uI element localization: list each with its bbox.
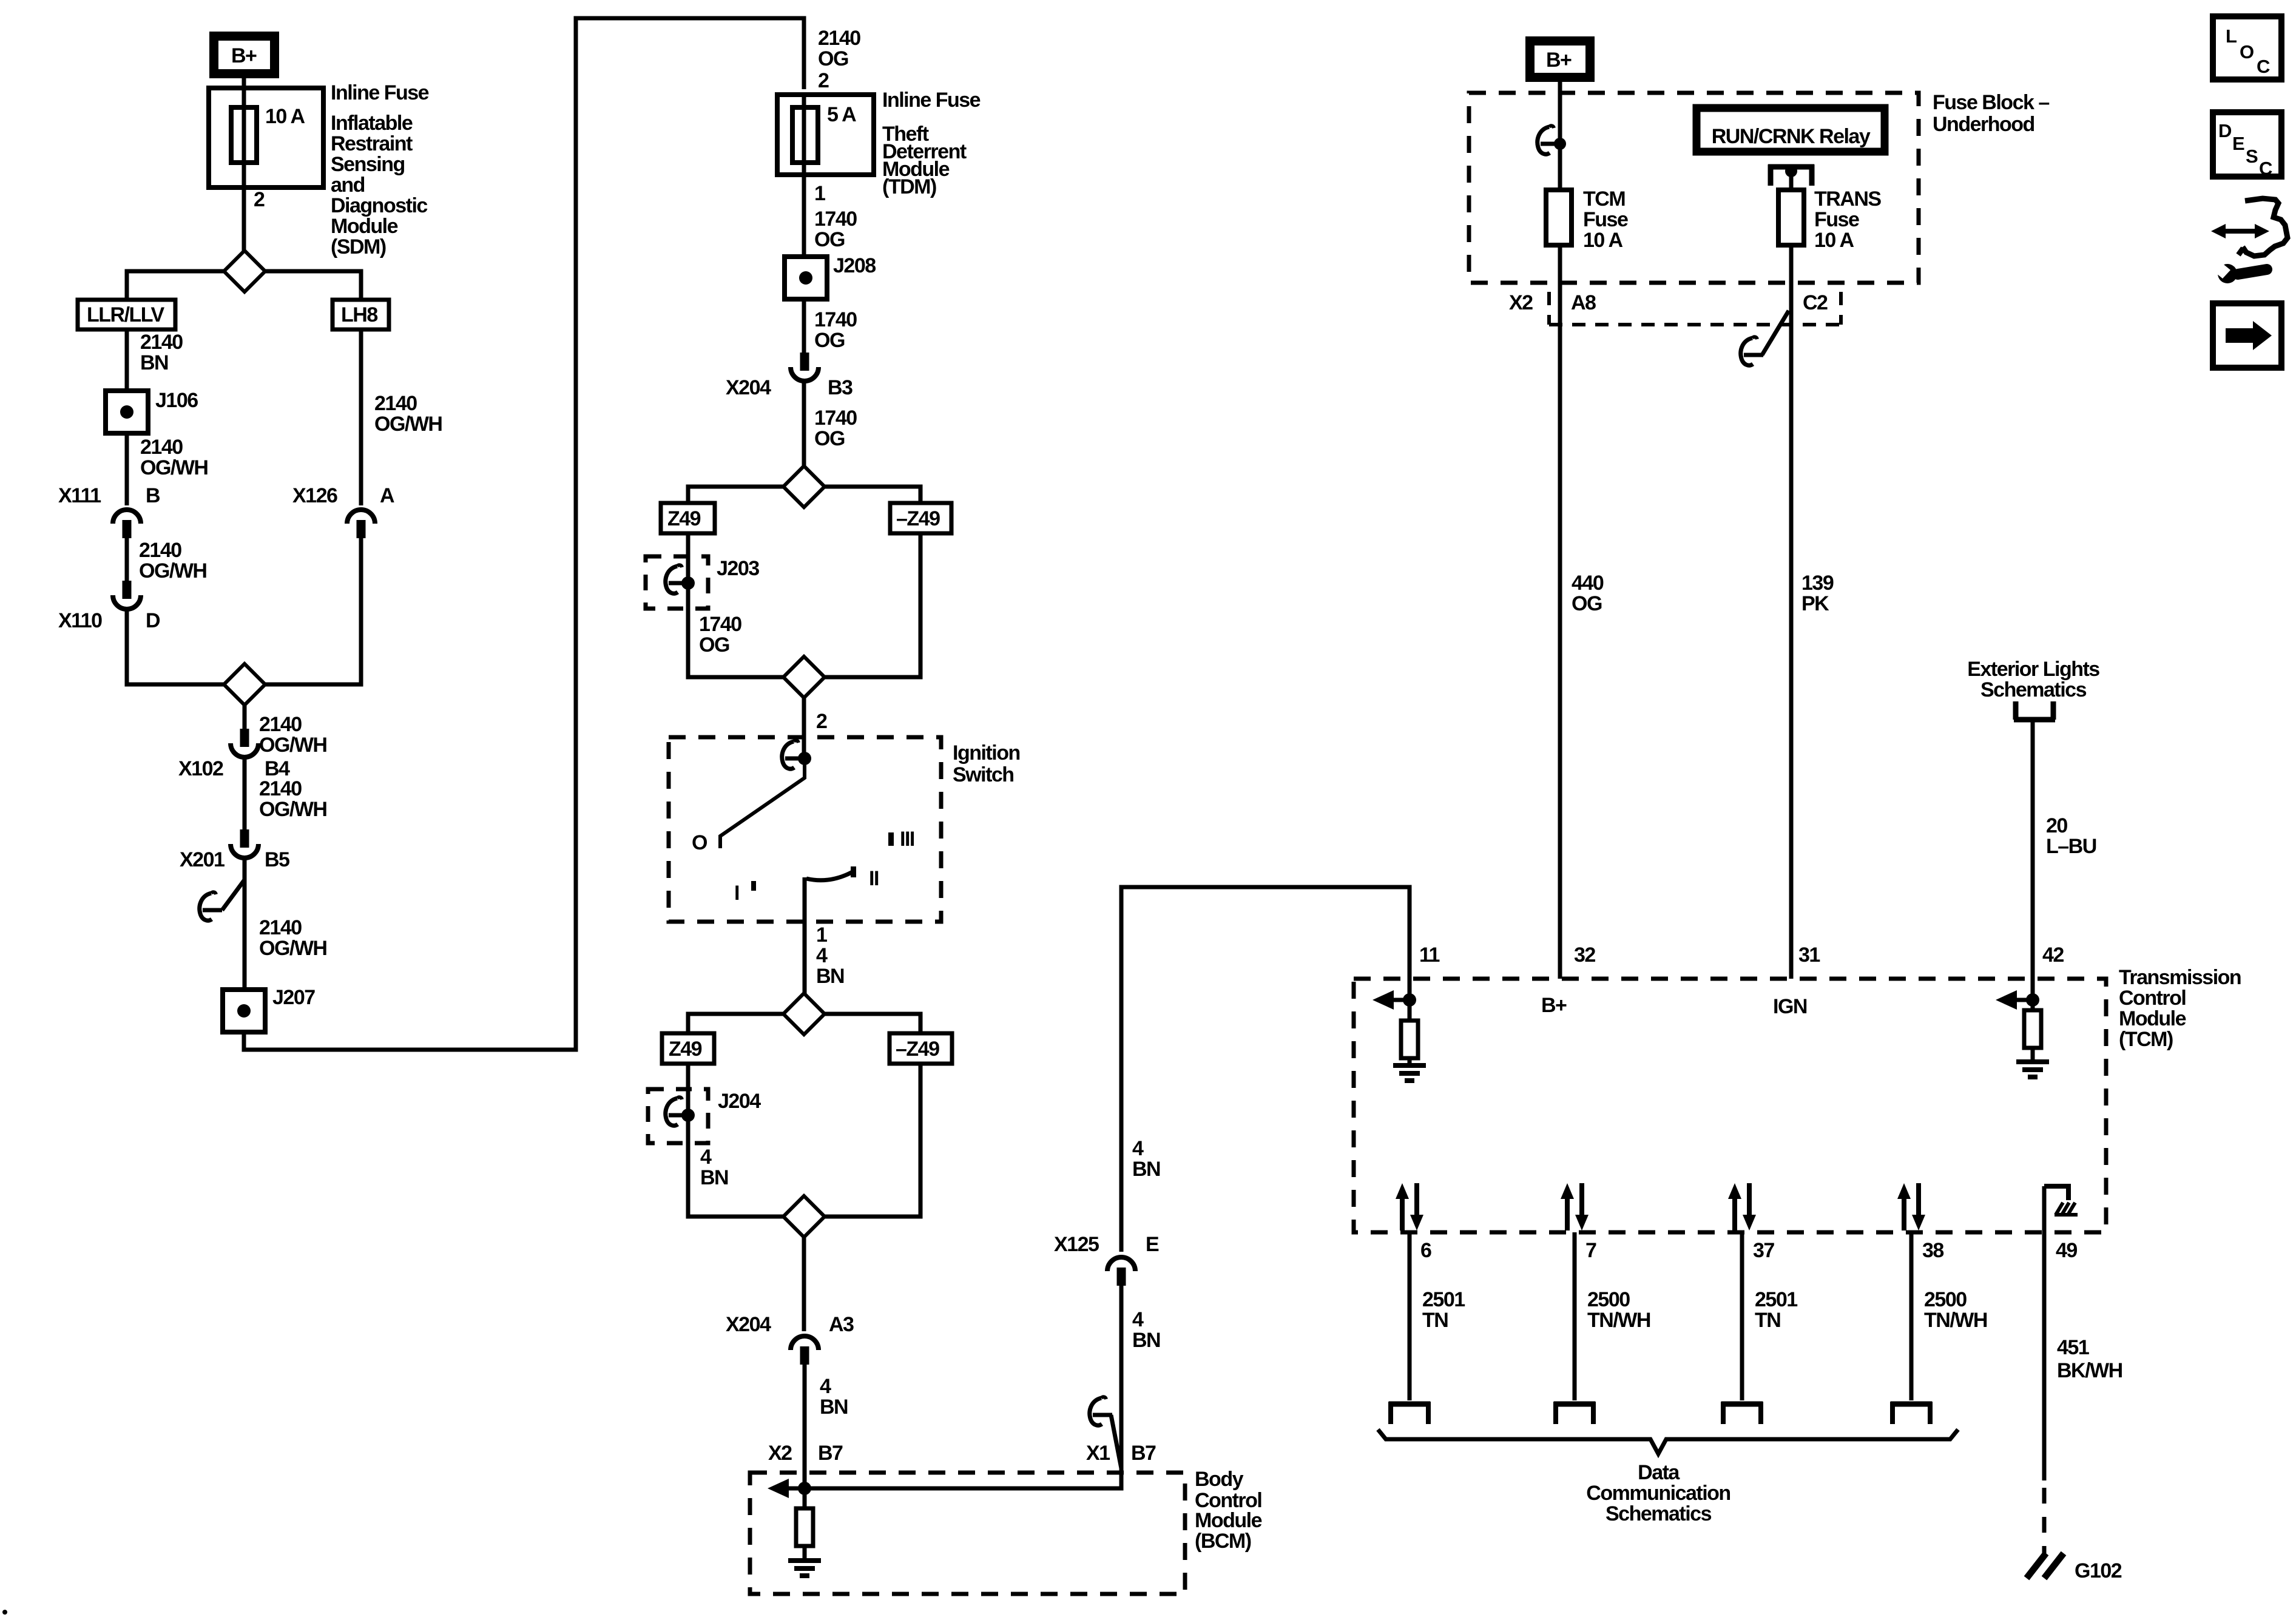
svg-text:and: and [331, 174, 365, 197]
clip at C2 [1741, 337, 1763, 365]
svg-text:(SDM): (SDM) [331, 235, 386, 258]
svg-text:(BCM): (BCM) [1195, 1530, 1251, 1553]
svg-text:Control: Control [2119, 987, 2186, 1010]
wire B+ to inline fuse [242, 78, 246, 89]
wire J106 to X111 [125, 433, 129, 505]
wire X204 to diamond D3 [802, 382, 806, 467]
wire D6 to X204 A3 [802, 1237, 806, 1331]
wire Z49 through J204 [688, 1064, 783, 1217]
dashed wire to G102 [2042, 1488, 2047, 1557]
svg-text:Data: Data [1638, 1461, 1680, 1484]
svg-text:B7: B7 [818, 1442, 843, 1465]
svg-text:TRANS: TRANS [1814, 187, 1881, 211]
svg-text:10 A: 10 A [1814, 229, 1854, 252]
wire diamond D2 to X102 [243, 705, 247, 731]
pin 49 internal bracket with chassis ground [2044, 1186, 2068, 1200]
svg-text:OG/WH: OG/WH [259, 734, 326, 757]
inline fuse F2 box (TDM 5A) [777, 95, 874, 175]
svg-text:OG/WH: OG/WH [139, 559, 206, 582]
wire BCM horizontal to TCM pin 11 [1121, 887, 1410, 1252]
svg-text:Underhood: Underhood [1933, 113, 2034, 136]
wire -Z49 down to merge (lower) [825, 1064, 920, 1217]
svg-text:Ignition: Ignition [953, 741, 1020, 765]
fuse TCM Fuse 10 A [1546, 190, 1572, 245]
svg-text:OG/WH: OG/WH [259, 937, 326, 960]
svg-text:4: 4 [1132, 1137, 1144, 1160]
svg-text:2501: 2501 [1755, 1288, 1797, 1311]
svg-text:A3: A3 [829, 1313, 854, 1336]
wire D4 to ignition switch [802, 698, 806, 763]
svg-text:X102: X102 [178, 757, 223, 780]
splice J208 [785, 257, 827, 299]
svg-text:2500: 2500 [1587, 1288, 1630, 1311]
svg-text:IGN: IGN [1773, 995, 1807, 1018]
svg-text:Module: Module [2119, 1007, 2186, 1030]
svg-text:Module: Module [1195, 1509, 1262, 1532]
svg-text:B+: B+ [1546, 49, 1572, 72]
splice J207 [223, 990, 265, 1032]
svg-text:4: 4 [700, 1146, 712, 1169]
svg-text:440: 440 [1572, 572, 1604, 595]
svg-text:BN: BN [140, 351, 168, 374]
svg-text:20: 20 [2046, 814, 2067, 837]
svg-text:42: 42 [2042, 944, 2064, 967]
svg-text:A8: A8 [1571, 291, 1596, 314]
svg-text:X126: X126 [292, 484, 337, 507]
option box Z49 (upper) [661, 503, 715, 533]
icon double arrow [2211, 224, 2269, 238]
svg-text:C: C [2257, 56, 2270, 77]
svg-text:2: 2 [818, 69, 829, 92]
svg-text:2: 2 [816, 710, 827, 733]
svg-text:OG/WH: OG/WH [259, 798, 326, 821]
svg-text:Fuse: Fuse [1583, 208, 1628, 231]
splice diamond D1 [224, 251, 265, 292]
svg-text:(TDM): (TDM) [882, 175, 936, 198]
fuse block underhood box (dashed) [1469, 93, 1919, 283]
wire X126 down to merge [265, 536, 361, 684]
svg-text:1740: 1740 [814, 308, 857, 331]
icon wrench [2238, 269, 2267, 274]
svg-text:OG: OG [818, 47, 848, 70]
pin 42 internal: wire, node, arrow [2031, 979, 2035, 1011]
connector X110 pin D [113, 581, 141, 609]
svg-text:Z49: Z49 [669, 1038, 702, 1061]
relay RUN/CRNK [1697, 108, 1885, 152]
svg-text:BN: BN [700, 1166, 728, 1189]
wire X110 down to merge [127, 610, 224, 684]
svg-text:II: II [869, 867, 879, 890]
clip in J203 [666, 565, 688, 593]
svg-text:–Z49: –Z49 [896, 1038, 939, 1061]
icon car with arrow and wrench [2238, 198, 2288, 256]
arrow into BCM [768, 1479, 805, 1498]
page artifact dot [2, 1610, 7, 1615]
svg-text:4: 4 [820, 1375, 831, 1398]
svg-text:X2: X2 [768, 1442, 792, 1465]
svg-text:38: 38 [1922, 1239, 1943, 1262]
svg-text:D: D [146, 609, 160, 632]
splice diamond D6 [783, 1196, 825, 1237]
svg-text:TN: TN [1422, 1309, 1448, 1332]
fuse TRANS Fuse 10 A [1778, 190, 1804, 245]
fuse element 10A [231, 107, 257, 163]
option box -Z49 (lower) [890, 1033, 952, 1064]
svg-text:B: B [146, 484, 160, 507]
svg-text:Schematics: Schematics [1980, 678, 2087, 701]
off-page bracket exterior lights [2014, 701, 2055, 720]
position label III [888, 832, 894, 846]
icon box arrow [2213, 303, 2281, 368]
svg-text:X1: X1 [1086, 1442, 1110, 1465]
svg-text:X125: X125 [1054, 1233, 1099, 1256]
svg-text:Exterior Lights: Exterior Lights [1967, 658, 2099, 681]
svg-text:37: 37 [1753, 1239, 1774, 1262]
svg-text:49: 49 [2056, 1239, 2077, 1262]
svg-text:OG: OG [814, 329, 845, 352]
ignition switch box (dashed) [669, 737, 941, 922]
svg-text:10 A: 10 A [1583, 229, 1623, 252]
svg-text:C: C [2259, 158, 2272, 179]
svg-text:1740: 1740 [699, 613, 741, 636]
svg-text:Inline Fuse: Inline Fuse [331, 81, 429, 104]
svg-text:4: 4 [1132, 1308, 1144, 1331]
svg-text:2140: 2140 [259, 916, 302, 939]
svg-text:I: I [734, 882, 739, 905]
svg-text:31: 31 [1798, 944, 1820, 967]
ground in BCM [788, 1561, 821, 1576]
svg-text:J208: J208 [833, 254, 876, 277]
wire D5 to Z49 (lower) [688, 1014, 783, 1033]
wire B+ into fuse block [1558, 77, 1562, 191]
svg-text:139: 139 [1801, 572, 1834, 595]
svg-text:4: 4 [816, 944, 828, 967]
splice diamond D4 [783, 657, 825, 698]
connector X204 pin B3 [791, 353, 819, 381]
svg-text:LLR/LLV: LLR/LLV [87, 303, 165, 326]
svg-text:OG/WH: OG/WH [140, 456, 208, 479]
svg-text:Fuse: Fuse [1814, 208, 1859, 231]
svg-text:TN/WH: TN/WH [1924, 1309, 1987, 1332]
pin 38 wire and label [1909, 1232, 1914, 1400]
svg-text:BN: BN [820, 1396, 848, 1419]
svg-text:OG: OG [814, 228, 845, 251]
pin 6 wire and label [1408, 1232, 1412, 1400]
svg-text:1: 1 [814, 182, 825, 205]
splice diamond D5 [783, 993, 825, 1035]
svg-text:OG: OG [699, 633, 729, 657]
svg-text:B3: B3 [828, 376, 853, 399]
fuse element 5A [792, 107, 818, 163]
clip at switch common [782, 740, 805, 769]
body control module box (dashed) [750, 1473, 1185, 1594]
svg-text:C2: C2 [1803, 291, 1828, 314]
svg-text:X111: X111 [58, 484, 101, 507]
svg-text:Restraint: Restraint [331, 132, 413, 155]
svg-text:2140: 2140 [140, 331, 183, 354]
power symbol B+ (left) [214, 36, 275, 74]
wire D5 to -Z49 (lower) [825, 1014, 920, 1033]
pin 11 internal: wire, node, arrow [1408, 979, 1412, 1022]
svg-text:X2: X2 [1509, 291, 1533, 314]
chassis ground G102 [2027, 1553, 2064, 1578]
connector X102 pin B4 [231, 729, 258, 757]
svg-text:TN: TN [1755, 1309, 1780, 1332]
svg-text:A: A [380, 484, 394, 507]
svg-text:11: 11 [1419, 944, 1440, 967]
svg-text:L: L [2226, 25, 2237, 47]
svg-text:TN/WH: TN/WH [1587, 1309, 1650, 1332]
svg-text:7: 7 [1585, 1239, 1596, 1262]
svg-text:B+: B+ [231, 44, 257, 67]
svg-text:2140: 2140 [374, 392, 417, 415]
svg-text:O: O [2240, 41, 2254, 62]
svg-text:2140: 2140 [140, 436, 183, 459]
option box -Z49 (upper) [890, 503, 951, 533]
svg-text:Z49: Z49 [667, 507, 701, 530]
wire junction to resistor [803, 1488, 807, 1510]
svg-text:6: 6 [1420, 1239, 1431, 1262]
svg-text:Sensing: Sensing [331, 153, 405, 176]
svg-text:451: 451 [2057, 1336, 2089, 1359]
svg-text:Fuse Block –: Fuse Block – [1933, 91, 2049, 114]
svg-text:Schematics: Schematics [1606, 1502, 1712, 1525]
svg-text:5 A: 5 A [827, 103, 856, 126]
svg-text:B5: B5 [265, 848, 289, 871]
power symbol B+ (right) [1530, 41, 1590, 78]
svg-text:BN: BN [816, 965, 844, 988]
svg-text:J106: J106 [155, 389, 198, 412]
wire diamond to LLR/LLV [127, 271, 224, 300]
resistor at pin 11 [1401, 1021, 1418, 1058]
svg-text:S: S [2246, 146, 2258, 167]
position II contact arc [806, 872, 853, 880]
clip on TCM fuse feed [1538, 126, 1560, 154]
svg-text:III: III [900, 828, 914, 851]
svg-text:–Z49: –Z49 [896, 507, 940, 530]
svg-text:L–BU: L–BU [2046, 835, 2096, 858]
junction box J203 (dashed) [646, 556, 708, 609]
splice J106 [106, 391, 148, 433]
svg-text:1740: 1740 [814, 208, 857, 231]
connector X201 pin B5 [231, 829, 258, 858]
svg-text:J204: J204 [718, 1090, 761, 1113]
splice diamond D2 [224, 664, 265, 705]
wire resistor to ground [803, 1546, 807, 1561]
svg-text:Transmission: Transmission [2119, 966, 2241, 989]
node junction in BCM [798, 1482, 811, 1495]
resistor in BCM [796, 1508, 813, 1546]
wire Z49 through J203 [688, 533, 783, 677]
wire J207 loop to TDM feed [244, 18, 804, 1050]
svg-text:Switch: Switch [953, 763, 1014, 786]
wire relay to TRANS fuse [1789, 167, 1794, 192]
svg-text:LH8: LH8 [341, 303, 377, 326]
splice diamond D3 [783, 466, 825, 507]
svg-text:RUN/CRNK Relay: RUN/CRNK Relay [1712, 125, 1871, 148]
wire exterior lights to TCM pin 42 [2031, 722, 2035, 979]
svg-text:2140: 2140 [818, 27, 860, 50]
svg-text:B7: B7 [1131, 1442, 1156, 1465]
svg-text:Inline Fuse: Inline Fuse [882, 89, 981, 112]
pin 7 wire and label [1573, 1232, 1577, 1400]
svg-text:OG: OG [1572, 592, 1602, 615]
wire D3 to Z49 [688, 487, 783, 503]
data pins up/down arrows 6,7,37,38 [1396, 1183, 1423, 1230]
wire D3 to -Z49 [825, 487, 920, 503]
svg-text:2501: 2501 [1422, 1288, 1465, 1311]
brace data communication [1378, 1430, 1958, 1454]
svg-text:O: O [692, 831, 707, 854]
switch blade to O [720, 758, 805, 848]
wire LLR/LLV down to J106 [125, 329, 129, 391]
wire J208 to X204 [802, 299, 806, 354]
svg-text:G102: G102 [2075, 1559, 2122, 1582]
switch output wire [803, 877, 807, 995]
svg-text:E: E [1146, 1233, 1159, 1256]
svg-text:TCM: TCM [1583, 187, 1625, 211]
svg-text:X110: X110 [58, 609, 102, 632]
ground at pin 42 [2016, 1062, 2049, 1077]
wire X204 A3 down to BCM [803, 1363, 807, 1488]
svg-text:Body: Body [1195, 1468, 1244, 1491]
resistor at pin 42 [2024, 1010, 2041, 1048]
svg-text:1: 1 [816, 923, 827, 947]
svg-text:32: 32 [1574, 944, 1595, 967]
svg-text:D: D [2218, 120, 2232, 141]
wire resistor to ground (pin 11) [1408, 1058, 1412, 1065]
wire diamond to LH8 [265, 271, 361, 300]
svg-text:2140: 2140 [259, 777, 302, 800]
svg-text:Inflatable: Inflatable [331, 112, 413, 135]
wire through fuse [242, 88, 246, 255]
svg-text:Diagnostic: Diagnostic [331, 194, 427, 217]
wire X111 to X110 [125, 536, 129, 582]
svg-text:PK: PK [1801, 592, 1829, 615]
option box LLR/LLV [78, 300, 175, 329]
svg-text:10 A: 10 A [265, 105, 305, 128]
wire X102 to X201 [243, 758, 247, 831]
svg-text:X204: X204 [726, 1313, 771, 1336]
ground at pin 11 [1393, 1065, 1426, 1081]
svg-text:BN: BN [1132, 1329, 1160, 1352]
svg-text:2: 2 [254, 188, 265, 211]
connector X2 strip (dashed) [1549, 292, 1841, 325]
svg-text:J203: J203 [717, 557, 759, 580]
inline fuse F1 box (SDM 10A) [209, 88, 323, 187]
wire TCM fuse down to TCM pin 32 [1558, 245, 1562, 979]
svg-text:B+: B+ [1541, 994, 1567, 1017]
option box Z49 (lower) [662, 1033, 714, 1064]
svg-text:E: E [2232, 133, 2244, 154]
svg-text:J207: J207 [272, 986, 315, 1009]
clip at X201 [200, 892, 222, 920]
wire resistor to ground (pin 42) [2031, 1048, 2035, 1062]
wire -Z49 down to merge [825, 533, 920, 677]
wire through TDM fuse [802, 95, 806, 257]
svg-text:(TCM): (TCM) [2119, 1028, 2173, 1051]
svg-text:2140: 2140 [139, 539, 181, 562]
svg-text:BK/WH: BK/WH [2057, 1359, 2122, 1382]
wire BCM junction to X1 entry [805, 1285, 1121, 1488]
svg-text:X201: X201 [180, 848, 225, 871]
clip at X1 B7 [1090, 1397, 1112, 1425]
pin 37 wire and label [1740, 1232, 1744, 1400]
relay output bracket [1768, 164, 1814, 186]
clip in J204 [666, 1097, 688, 1126]
junction box J204 (dashed) [648, 1089, 708, 1143]
transmission control module box (dashed) [1354, 979, 2106, 1232]
svg-text:X204: X204 [726, 376, 771, 399]
svg-text:BN: BN [1132, 1158, 1160, 1181]
wire LH8 down to X126 [359, 329, 363, 505]
wire pin 49 [2042, 1186, 2047, 1480]
wire TRANS fuse down to TCM pin 31 [1789, 245, 1794, 979]
option box LH8 [333, 300, 389, 329]
svg-text:2140: 2140 [259, 713, 302, 736]
icon box LOC [2213, 16, 2281, 79]
wire X201 to J207 [243, 859, 247, 990]
icon box DESC [2213, 112, 2281, 177]
svg-text:Communication: Communication [1586, 1482, 1730, 1505]
svg-text:1740: 1740 [814, 407, 857, 430]
svg-text:2500: 2500 [1924, 1288, 1967, 1311]
svg-text:Module: Module [331, 215, 398, 238]
svg-text:OG: OG [814, 427, 845, 450]
svg-text:OG/WH: OG/WH [374, 413, 442, 436]
